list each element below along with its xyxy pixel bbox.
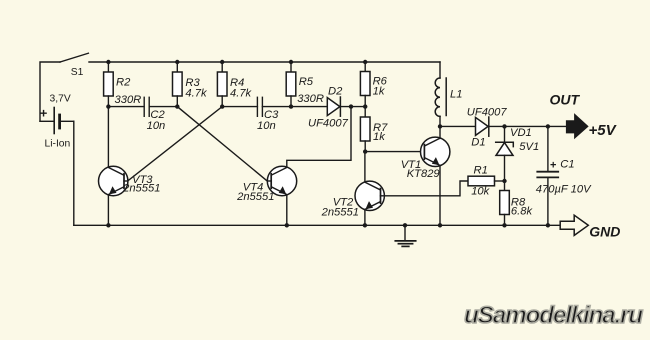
- ground arrow GND (outline): [560, 215, 588, 235]
- capacitor C1 470uF (electrolytic): [537, 126, 558, 225]
- svg-text:KT829: KT829: [407, 168, 440, 180]
- svg-text:2n5551: 2n5551: [321, 206, 359, 218]
- transistor VT1 KT829 (base left): [421, 137, 450, 166]
- wire VT1 emitter to ground rail: [439, 165, 441, 225]
- svg-text:S1: S1: [71, 67, 84, 78]
- capacitor C3: [257, 97, 262, 116]
- svg-text:10k: 10k: [471, 186, 490, 198]
- output arrow +5V (filled): [566, 114, 588, 138]
- wire L1 node to D1: [440, 125, 476, 127]
- wire VT2 base to R1: [381, 181, 469, 196]
- svg-text:4.7k: 4.7k: [230, 87, 253, 99]
- svg-text:UF4007: UF4007: [308, 118, 349, 130]
- svg-text:C1: C1: [560, 158, 574, 170]
- svg-text:OUT: OUT: [550, 92, 581, 108]
- svg-text:UF4007: UF4007: [467, 106, 508, 118]
- svg-text:uSamodelkina.ru: uSamodelkina.ru: [464, 302, 643, 329]
- wire top rail: [89, 61, 440, 63]
- svg-text:Li-Ion: Li-Ion: [45, 138, 71, 149]
- svg-text:R2: R2: [116, 76, 131, 88]
- svg-text:C2: C2: [150, 109, 165, 121]
- svg-text:VD1: VD1: [510, 127, 532, 139]
- svg-text:R1: R1: [474, 165, 488, 177]
- svg-text:1k: 1k: [373, 86, 386, 98]
- resistor R5: [286, 62, 296, 107]
- diode D2 UF4007: [327, 97, 340, 116]
- wire R7 node to VT1 base: [365, 151, 424, 153]
- wire R4 to C3: [222, 106, 257, 108]
- resistor R8: [500, 181, 510, 225]
- resistor R3: [173, 62, 183, 107]
- diode D1 UF4007: [476, 117, 489, 136]
- resistor R7: [360, 107, 370, 152]
- svg-text:330R: 330R: [297, 93, 324, 105]
- resistor R2: [104, 62, 114, 107]
- transistor VT2 2n5551 (base right): [355, 181, 384, 210]
- wire D2 node down and left to VT4 collector: [287, 107, 351, 168]
- resistor R4: [217, 62, 227, 107]
- wire VT3 emitter to ground rail: [107, 195, 109, 226]
- wire C2 to R3: [149, 106, 177, 108]
- wire battery- down to ground rail: [73, 121, 75, 225]
- inductor L1: [435, 62, 446, 126]
- wire D2 to R6/R7 junction: [340, 106, 365, 108]
- wire VT2 emitter to ground rail: [364, 210, 366, 226]
- svg-text:10n: 10n: [147, 120, 166, 132]
- svg-text:470µF 10V: 470µF 10V: [536, 184, 592, 196]
- wire cross-coupling R3 node to VT4 base: [177, 107, 267, 181]
- svg-text:D2: D2: [328, 85, 343, 97]
- resistor R6: [360, 62, 370, 107]
- svg-text:+: +: [40, 106, 48, 121]
- svg-text:4.7k: 4.7k: [185, 87, 208, 99]
- wire D1 to output: [489, 125, 567, 127]
- svg-text:R5: R5: [299, 76, 314, 88]
- svg-text:C3: C3: [264, 109, 279, 121]
- battery G1 3.7V Li-Ion: [40, 108, 74, 134]
- transistor VT4 2n5551 (base left): [267, 166, 296, 195]
- svg-text:+: +: [550, 159, 556, 171]
- capacitor C2: [144, 97, 149, 116]
- svg-text:330R: 330R: [115, 94, 142, 106]
- wire VT1 collector up to L1 node: [439, 126, 441, 138]
- wire cross-coupling R4 node to VT3 base: [128, 107, 223, 181]
- zener diode VD1 5V1: [496, 126, 514, 181]
- svg-text:GND: GND: [589, 224, 620, 240]
- resistor R1 (horizontal): [468, 176, 505, 186]
- wire R2 to C2: [108, 106, 144, 108]
- svg-text:3,7V: 3,7V: [50, 94, 71, 105]
- svg-text:D1: D1: [471, 136, 485, 148]
- svg-text:1k: 1k: [373, 131, 386, 143]
- wire R5 to D2: [291, 106, 327, 108]
- wire bottom ground rail: [74, 224, 561, 226]
- wire VT2 collector to R7 bottom node: [364, 152, 366, 182]
- wire battery+ up to switch: [40, 62, 60, 121]
- wire VT4 emitter to ground rail: [286, 195, 288, 226]
- wire VT3 collector from R2/C2 node: [107, 107, 109, 168]
- svg-text:6.8k: 6.8k: [511, 205, 534, 217]
- wire C3 to R5: [262, 106, 291, 108]
- svg-text:2n5551: 2n5551: [236, 191, 274, 203]
- svg-text:5V1: 5V1: [519, 141, 539, 153]
- svg-text:+5V: +5V: [589, 122, 618, 139]
- svg-text:2n5551: 2n5551: [122, 182, 160, 194]
- svg-text:L1: L1: [450, 88, 462, 100]
- svg-text:10n: 10n: [257, 120, 276, 132]
- switch S1: [60, 53, 88, 62]
- ground symbol: [395, 225, 415, 246]
- transistor VT3 2n5551 (base right): [99, 166, 128, 195]
